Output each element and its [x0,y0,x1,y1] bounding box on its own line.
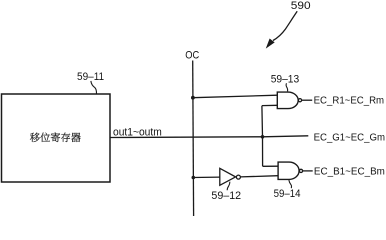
wire to NAND 59-14 top input [263,165,279,167]
svg-text:59–14: 59–14 [274,188,301,200]
leader arrow for 590 [267,11,298,47]
label 59-14 [274,188,301,200]
inverter 59-12 triangle [220,168,236,185]
NAND 59-14 output bubble [299,169,302,172]
wire out1~outm bus from shift register (EC_G net) [110,136,308,138]
shift register 59-11 box [2,94,111,182]
svg-text:59–12: 59–12 [211,190,241,202]
wire to NAND 59-13 bottom input [262,104,277,106]
wire OC to inverter input [193,176,220,178]
figure reference label 590 [291,0,311,12]
label 59-11 [77,71,104,83]
NAND gate 59-14 body [278,162,299,179]
svg-text:590: 590 [291,0,311,12]
wire vertical branch from node [261,106,264,167]
wire OC to NAND 59-13 top input [193,95,277,98]
wire NAND 59-14 output [303,170,313,172]
leader line 59-12 [227,182,230,191]
NAND gate 59-13 body [277,92,298,109]
svg-text:EC_G1~EC_Gm: EC_G1~EC_Gm [314,132,385,143]
label 59-13 [271,74,300,86]
wire OC vertical net [192,61,195,217]
wire inverter output to NAND 59-14 bottom input [240,176,278,177]
svg-text:59–13: 59–13 [271,74,300,86]
label OC [185,50,199,62]
leader line 59-14 [289,180,292,188]
junction node on out line [261,135,265,139]
shift register label (Chinese: shift register) [30,132,81,142]
inverter 59-12 output bubble [236,175,240,179]
net label EC_B1~EC_Bm [314,166,385,177]
svg-text:EC_R1~EC_Rm: EC_R1~EC_Rm [314,96,385,107]
svg-text:EC_B1~EC_Bm: EC_B1~EC_Bm [314,166,385,177]
svg-text:OC: OC [185,50,199,62]
net label EC_R1~EC_Rm [314,96,385,107]
wire NAND 59-13 output [302,99,312,101]
junction OC / NAND 59-13 input [191,96,195,100]
label out1~outm [113,127,162,139]
leader line 59-11 [91,81,97,94]
NAND 59-13 output bubble [298,99,301,102]
svg-text:out1~outm: out1~outm [113,127,162,139]
junction OC / inverter input [192,176,196,180]
leader line 59-13 [286,83,288,91]
net label EC_G1~EC_Gm [314,132,385,143]
label 59-12 [211,190,241,202]
